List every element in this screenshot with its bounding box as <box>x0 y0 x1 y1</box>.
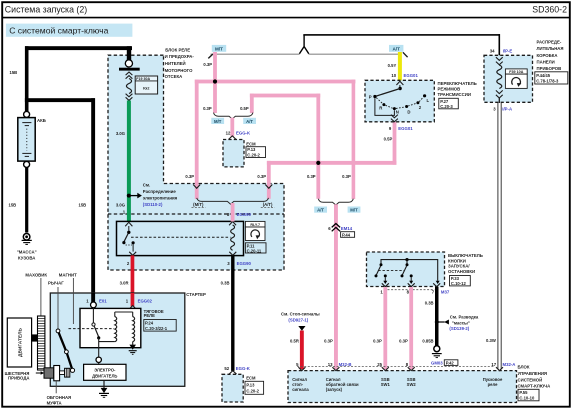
winding to motor node <box>99 341 115 343</box>
svg-text:ECM: ECM <box>246 141 256 146</box>
breaker symbol <box>505 74 527 88</box>
svg-text:0.85B: 0.85B <box>422 338 433 343</box>
svg-text:ОСТАНОВКИ: ОСТАНОВКИ <box>448 269 475 274</box>
svg-text:P.44/45: P.44/45 <box>536 73 551 78</box>
svg-text:P.55: P.55 <box>519 390 528 395</box>
svg-text:0.3B: 0.3B <box>221 281 230 286</box>
label M/T (top) <box>212 45 226 52</box>
svg-text:РАСПРЕДЕ-: РАСПРЕДЕ- <box>537 40 562 45</box>
svg-text:15В: 15В <box>10 70 18 75</box>
svg-text:ЭЛЕКТРО-: ЭЛЕКТРО- <box>94 367 116 372</box>
solenoid windings feed <box>132 312 134 317</box>
svg-text:УПРАВЛЕНИЯ: УПРАВЛЕНИЯ <box>518 371 548 376</box>
svg-text:КУЗОВА: КУЗОВА <box>18 256 35 261</box>
chevrons EGG02 into solenoid <box>129 306 136 313</box>
svg-text:EGG-K: EGG-K <box>236 131 251 136</box>
pointer lines <box>40 278 42 316</box>
svg-text:0.5Y: 0.5Y <box>388 63 397 68</box>
svg-text:EM14: EM14 <box>341 226 353 231</box>
wire: drop to (A/T) entry <box>267 161 271 199</box>
ECM box (12 EGG-K) <box>223 140 244 167</box>
relay/fuse box dashed outline <box>108 55 284 270</box>
starter box <box>50 293 185 386</box>
svg-text:(А/Т): (А/Т) <box>263 202 273 207</box>
pull-in winding <box>115 317 117 342</box>
wire: to relay pin 8 <box>231 203 235 222</box>
svg-text:КОРОБКА: КОРОБКА <box>537 53 558 58</box>
svg-text:ОТСЕКА: ОТСЕКА <box>165 74 183 79</box>
svg-text:ПАНЕЛИ: ПАНЕЛИ <box>537 60 555 65</box>
svg-text:C.20-3: C.20-3 <box>440 104 453 109</box>
svg-text:электропитания: электропитания <box>143 195 178 200</box>
svg-text:C.10-12: C.10-12 <box>451 281 467 286</box>
RLY.7 label <box>245 221 265 227</box>
svg-text:ОБГОННАЯ: ОБГОННАЯ <box>47 395 72 400</box>
svg-text:C.20-3/22-1: C.20-3/22-1 <box>145 326 168 331</box>
svg-text:БЛОК: БЛОК <box>518 364 530 369</box>
drive gear (ШЕСТЕРНЯ ПРИВОДА) <box>44 368 54 378</box>
svg-text:"МАССА": "МАССА" <box>17 249 37 254</box>
svg-text:E01: E01 <box>99 299 107 304</box>
chevrons into fuse <box>126 72 133 79</box>
svg-text:3.0G: 3.0G <box>116 203 125 208</box>
svg-text:F39 10A: F39 10A <box>509 70 523 74</box>
svg-text:12: 12 <box>226 131 231 136</box>
ref box P.11 / C.20-11 <box>245 243 266 253</box>
wire: 15В into starter (over box) <box>91 293 95 303</box>
circuit breaker element <box>497 65 502 88</box>
svg-text:СИСТЕМОЙ: СИСТЕМОЙ <box>518 377 543 382</box>
ref box P.44/45 / C.78-1/78-3 <box>535 72 568 84</box>
junction dot (M/T bus) <box>213 79 217 83</box>
svg-text:(SD110-2): (SD110-2) <box>143 202 163 207</box>
ganged dashed link <box>378 270 404 272</box>
svg-text:M32-A: M32-A <box>503 362 516 367</box>
svg-text:0.3P: 0.3P <box>185 174 194 179</box>
label A/T (top) <box>389 45 403 52</box>
chevron (M/T) box entry <box>193 185 200 189</box>
label БЛОК УПРАВЛЕНИЯ СИСТЕМОЙ СМАРТ-КЛЮЧА <box>518 364 551 388</box>
wire: right 15В vertical to starter <box>91 98 95 303</box>
svg-text:(SD139-2): (SD139-2) <box>449 326 469 331</box>
svg-text:RLY.7: RLY.7 <box>250 223 260 227</box>
svg-text:ЛИТЕЛЬНАЯ: ЛИТЕЛЬНАЯ <box>537 46 564 51</box>
wire: feed into fuse box <box>127 46 131 60</box>
wire: right drop V to M/T brace <box>352 80 356 199</box>
svg-text:13: 13 <box>328 362 333 367</box>
solenoid main contact <box>92 308 94 323</box>
chevron into ECM <box>229 136 236 140</box>
svg-text:0.3P: 0.3P <box>342 174 351 179</box>
relay symbol (circle arrow) <box>245 227 265 241</box>
svg-text:A/T: A/T <box>392 47 400 52</box>
wire: left vertical to battery <box>25 46 29 112</box>
svg-text:34: 34 <box>490 48 495 53</box>
hook right <box>403 52 408 57</box>
label M/T <box>348 207 361 213</box>
pin chevrons at box edge <box>382 283 440 286</box>
svg-text:0.3B: 0.3B <box>425 300 434 305</box>
hold-in winding <box>133 317 135 342</box>
subtitle highlight: С системой смарт-ключа <box>6 24 132 37</box>
variant fork <box>299 35 308 54</box>
svg-text:См. Разводка: См. Разводка <box>450 315 479 320</box>
svg-text:БЛОК РЕЛЕ: БЛОК РЕЛЕ <box>165 47 190 52</box>
svg-text:МАХОВИК: МАХОВИК <box>25 272 47 277</box>
svg-text:52: 52 <box>224 366 229 371</box>
fuse element F19 <box>126 79 131 94</box>
hook left <box>208 54 213 58</box>
svg-text:И ПРЕДОХРА-: И ПРЕДОХРА- <box>165 54 195 59</box>
wire: SSB SW2 0.3P <box>409 287 413 369</box>
svg-text:ТРАНСМИССИИ: ТРАНСМИССИИ <box>438 92 471 97</box>
svg-text:P.44: P.44 <box>342 232 351 237</box>
terminal E01 <box>91 302 97 308</box>
svg-text:IG2: IG2 <box>143 86 150 91</box>
brace M/T-A/T to 12 EGG-K <box>214 113 253 119</box>
wire: SSB SW1 0.3P <box>383 287 387 369</box>
svg-text:ПЕРЕКЛЮЧАТЕЛЬ: ПЕРЕКЛЮЧАТЕЛЬ <box>438 81 477 86</box>
svg-text:I/P-A: I/P-A <box>502 107 512 112</box>
svg-text:15В: 15В <box>79 202 87 207</box>
relay actuating dashed link <box>131 236 231 238</box>
wire: I/P-A (white, double line) <box>498 98 500 103</box>
svg-text:МАГНИТ: МАГНИТ <box>59 272 77 277</box>
svg-text:ДВИГАТЕЛЬ: ДВИГАТЕЛЬ <box>18 327 24 356</box>
block internal labels <box>292 377 503 392</box>
svg-text:СТАРТЕР: СТАРТЕР <box>186 292 206 297</box>
wire: 3.0R into solenoid (over box) <box>131 293 135 306</box>
wire: 0.5R stop signal <box>300 331 304 370</box>
ref box P.24 / C.20-3/22-1 <box>144 320 176 332</box>
svg-text:(запуск): (запуск) <box>326 387 343 392</box>
svg-text:SD360-2: SD360-2 <box>532 5 567 15</box>
wire: battery to body ground <box>25 167 28 232</box>
overrunning clutch coupling <box>65 368 70 377</box>
label A/T <box>314 207 327 213</box>
bus bar <box>119 68 140 71</box>
svg-text:SW1: SW1 <box>381 382 391 387</box>
svg-text:M/T: M/T <box>215 47 223 52</box>
svg-text:реле: реле <box>488 382 498 387</box>
svg-text:СМАРТ-КЛЮЧА: СМАРТ-КЛЮЧА <box>518 384 551 389</box>
svg-text:GM03: GM03 <box>431 360 443 365</box>
svg-text:НИТЕЛЕЙ: НИТЕЛЕЙ <box>165 61 186 66</box>
svg-text:3.0G: 3.0G <box>116 131 125 136</box>
brace (M/T)-(A/T) to relay pin 8 <box>197 198 269 204</box>
svg-text:P.13: P.13 <box>246 383 255 388</box>
svg-text:АКБ: АКБ <box>37 118 46 123</box>
svg-text:25: 25 <box>377 362 382 367</box>
brace A/T-M/T to EM14 <box>318 199 353 205</box>
P to output link <box>375 98 395 115</box>
entry chevrons <box>298 367 503 370</box>
contact P <box>373 95 376 98</box>
motor ground <box>103 380 105 388</box>
wire: 0.3B relay pin3 to ECM <box>231 255 234 371</box>
svg-text:0.3P: 0.3P <box>257 174 266 179</box>
battery АКБ <box>24 111 30 117</box>
wire: 3.0R red relay to starter <box>131 255 135 306</box>
svg-text:A/T: A/T <box>317 208 324 213</box>
ref box P.27 / C.20-3 <box>439 98 459 109</box>
shaft <box>60 371 65 375</box>
svg-text:0.3W: 0.3W <box>486 338 496 343</box>
svg-text:M32-B: M32-B <box>339 362 352 367</box>
label: БЛОК РЕЛЕ И ПРЕДОХРАНИТЕЛЕЙ МОТОРНОГО ОТСЕКА <box>165 47 195 79</box>
connector ring <box>125 60 132 67</box>
ground GM03 <box>434 346 440 352</box>
svg-text:15В: 15В <box>9 202 17 207</box>
svg-text:C.78-1/78-3: C.78-1/78-3 <box>536 79 559 84</box>
svg-text:МОТОРНОГО: МОТОРНОГО <box>165 68 193 73</box>
connector dashed line M37 <box>388 289 435 291</box>
ref box P.13 / C.20-2 <box>245 381 264 394</box>
junction dot on green wire <box>127 194 131 198</box>
wire: to ECM pin 12 <box>230 118 234 137</box>
ref box P.55 / C.10-10 <box>518 389 539 401</box>
pin 1 chevron <box>125 222 132 226</box>
ref box P.33 / C.10-12 <box>450 276 471 286</box>
wire: drop to A/T brace <box>250 94 254 114</box>
chevrons in <box>496 57 503 65</box>
svg-text:I/P-E: I/P-E <box>503 48 513 53</box>
pin 2 chevron <box>129 252 136 256</box>
wire: 0.3P below junction to brace <box>213 82 217 114</box>
junction dot on H3 <box>316 161 320 165</box>
svg-text:N: N <box>396 110 399 115</box>
svg-text:EGG01: EGG01 <box>398 126 413 131</box>
svg-text:EGG-K: EGG-K <box>236 366 251 371</box>
svg-text:0.3P: 0.3P <box>399 338 408 343</box>
svg-text:10: 10 <box>391 73 396 78</box>
label A/T <box>243 118 256 124</box>
chevrons out of fuse <box>126 94 133 101</box>
engine-flywheel mount <box>32 334 38 341</box>
label ВЫКЛЮЧАТЕЛЬ КНОПКИ ЗАПУСКА/ОСТАНОВКИ <box>448 253 483 274</box>
label M/T <box>211 118 224 124</box>
svg-text:РЕЛЕ: РЕЛЕ <box>144 313 156 318</box>
svg-text:0.5R: 0.5R <box>290 338 299 343</box>
wire: black feed from I/P fuse <box>303 34 500 36</box>
svg-text:0.3P: 0.3P <box>307 174 316 179</box>
svg-text:EGG90: EGG90 <box>237 212 252 217</box>
svg-text:M/T: M/T <box>350 208 358 213</box>
svg-text:D: D <box>407 109 410 114</box>
label ПЕРЕКЛЮЧАТЕЛЬ РЕЖИМОВ ТРАНСМИССИИ <box>438 81 477 97</box>
connector dashed pin line <box>297 366 494 368</box>
see-reference: Распределение электропитания SD110-2 <box>143 183 178 207</box>
svg-text:0.3P: 0.3P <box>324 338 333 343</box>
shift lever <box>58 331 73 370</box>
svg-text:0.3P: 0.3P <box>203 62 212 67</box>
svg-text:M/T: M/T <box>214 119 222 124</box>
svg-text:C.20-2: C.20-2 <box>246 389 259 394</box>
svg-text:SW2: SW2 <box>407 382 417 387</box>
svg-text:См.: См. <box>143 183 150 188</box>
svg-text:0.3P: 0.3P <box>203 106 212 111</box>
svg-text:EGG01: EGG01 <box>404 73 419 78</box>
svg-text:0.5P: 0.5P <box>240 106 249 111</box>
svg-text:РЫЧАГ: РЫЧАГ <box>48 281 64 286</box>
switch SW1 <box>380 263 383 266</box>
dashed contact arc <box>376 97 423 109</box>
label РАСПРЕДЕЛИТЕЛЬНАЯ КОРОБКА ПАНЕЛИ ПРИБОРОВ <box>537 40 564 72</box>
pin 3 chevron <box>229 252 236 256</box>
svg-text:ПРИВОДА: ПРИВОДА <box>8 376 30 381</box>
svg-text:ДВИГАТЕЛЬ: ДВИГАТЕЛЬ <box>92 373 117 378</box>
junction dot / see-reference разводка массы <box>435 320 439 324</box>
ECM box <box>222 374 243 402</box>
svg-text:EGG02: EGG02 <box>138 299 153 304</box>
wire: 15В feed top horizontal <box>25 46 132 50</box>
arrow to see-reference <box>131 195 138 197</box>
wire: drop from H2 to H3 <box>316 94 320 163</box>
svg-text:L: L <box>427 98 430 103</box>
svg-text:МУФТА: МУФТА <box>47 401 62 406</box>
switch SW2 <box>406 263 409 266</box>
connector EM14 chevrons <box>332 224 340 232</box>
svg-text:См. Стоп-сигналы: См. Стоп-сигналы <box>281 311 320 316</box>
svg-text:C.20-2: C.20-2 <box>247 152 260 157</box>
solenoid box ТЯГОВОЕ РЕЛЕ <box>80 308 141 347</box>
svg-text:3.0R: 3.0R <box>120 281 129 286</box>
svg-text:Система запуска (2): Система запуска (2) <box>5 5 87 15</box>
wire: left drop to (M/T) <box>195 80 199 199</box>
svg-text:17: 17 <box>491 362 496 367</box>
motor box ЭЛЕКТРО-ДВИГАТЕЛЬ <box>84 364 126 380</box>
fuse label box F19 30A / IG2 <box>135 76 157 94</box>
svg-text:M37: M37 <box>441 290 450 295</box>
internal feed rail <box>381 260 438 281</box>
contact L <box>423 94 426 97</box>
svg-text:EGG90: EGG90 <box>237 261 252 266</box>
wire: horizontal bus H1 <box>195 80 356 84</box>
pin 10 chevron <box>396 81 403 85</box>
wire: 0.5Y yellow <box>398 52 402 81</box>
svg-text:С системой смарт-ключа: С системой смарт-ключа <box>9 26 108 36</box>
svg-text:A/T: A/T <box>246 119 253 124</box>
svg-text:ПРИБОРОВ: ПРИБОРОВ <box>537 66 562 71</box>
svg-text:P.42: P.42 <box>446 360 455 365</box>
relay contact <box>128 226 130 231</box>
variant link line <box>211 53 300 55</box>
wire: branch horizontal to starter feed <box>25 98 95 102</box>
wire: horizontal H3 <box>267 161 397 165</box>
svg-text:P.24: P.24 <box>145 320 154 325</box>
relay coil <box>231 225 235 250</box>
contact D <box>405 105 408 108</box>
svg-text:"массы": "массы" <box>452 321 470 326</box>
pinion bracket <box>54 366 60 381</box>
svg-text:сигнала: сигнала <box>292 387 309 392</box>
wire: 0.3P to EM14 and pin 13 <box>334 204 338 369</box>
svg-text:0.3P: 0.3P <box>373 338 382 343</box>
svg-text:(SD927-1): (SD927-1) <box>288 318 308 323</box>
svg-text:C.10-10: C.10-10 <box>519 396 535 401</box>
svg-text:РЕЖИМОВ: РЕЖИМОВ <box>438 87 461 92</box>
TRS common and wiper <box>398 87 401 90</box>
breaker label box F39 10A <box>505 69 527 74</box>
wire: 3.0G green <box>127 101 131 223</box>
wire: horizontal H2 (A/T tap) <box>250 94 320 98</box>
relay box <box>117 221 244 255</box>
wire: 0.85B ground <box>435 287 439 346</box>
chevron (A/T) box entry <box>265 185 272 189</box>
TRS box <box>365 80 434 122</box>
label ОБГОННАЯ МУФТА with pointer <box>55 381 57 393</box>
wire: H3 to TRS pin 9 <box>393 122 397 165</box>
flywheel (toothed) <box>38 316 45 370</box>
svg-text:F19 30A: F19 30A <box>136 77 150 81</box>
contact N <box>393 107 396 110</box>
ground: МАССА КУЗОВА <box>23 234 30 241</box>
svg-text:ECM: ECM <box>246 376 256 381</box>
pin 8 chevron <box>229 222 236 226</box>
wire: below dot to A/T brace <box>316 163 320 199</box>
svg-text:(М/Т): (М/Т) <box>193 202 204 207</box>
chevron into ECM <box>229 371 237 375</box>
engine box ДВИГАТЕЛЬ <box>7 318 31 367</box>
pin 7 arrow <box>436 281 440 284</box>
svg-text:0.5P: 0.5P <box>384 136 393 141</box>
solenoid dashed plunger link <box>69 328 115 330</box>
svg-text:P: P <box>369 94 372 99</box>
ref box P.13 / C.20-2 <box>246 147 266 158</box>
winding ground <box>129 345 136 350</box>
svg-text:C.20-11: C.20-11 <box>247 248 262 253</box>
pin 9 chevrons <box>391 115 398 122</box>
motor terminal <box>96 357 101 362</box>
svg-text:Распределение: Распределение <box>143 189 177 194</box>
contact R <box>382 103 385 106</box>
wire: 0.3P from M/T label <box>213 52 217 84</box>
contact 2 <box>416 101 419 104</box>
relay/fuse box fill <box>108 55 164 183</box>
